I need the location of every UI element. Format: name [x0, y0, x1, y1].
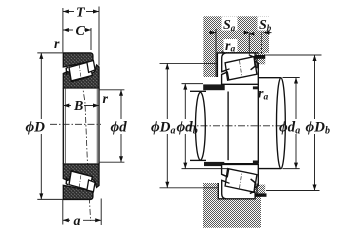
svg-text:ϕd: ϕd — [111, 120, 128, 136]
svg-text:r: r — [103, 92, 109, 107]
svg-text:T: T — [76, 6, 86, 21]
svg-text:a: a — [74, 214, 81, 229]
svg-text:r: r — [54, 37, 60, 52]
svg-text:B: B — [73, 99, 83, 114]
svg-text:C: C — [76, 24, 86, 39]
svg-text:ϕD: ϕD — [26, 120, 46, 136]
